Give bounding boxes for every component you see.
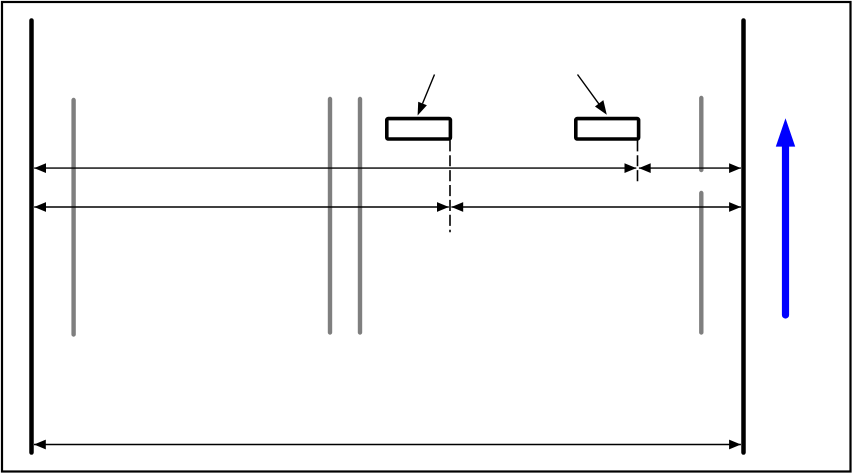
blue direction arrow	[776, 118, 795, 315]
dimension line D2 right span (box1 extension to wall)	[451, 202, 741, 212]
dimension line D1 left span (wall to box2 extension)	[34, 163, 636, 173]
gray plane 2	[328, 99, 332, 333]
dashed extension line from box 2	[637, 140, 639, 184]
left wall	[29, 21, 34, 453]
pointer arrow to box 1	[418, 75, 435, 116]
gray plane 1	[71, 100, 75, 335]
dashed extension line from box 1	[449, 140, 451, 232]
pointer arrow to box 2	[578, 75, 607, 115]
gray plane 3	[358, 99, 362, 333]
sensor box 2	[576, 119, 639, 139]
gray plane 4 upper segment	[699, 98, 703, 170]
sensor box 1	[387, 119, 451, 139]
dimension line D2 left span (wall to box1 extension)	[34, 202, 449, 212]
right wall	[741, 21, 746, 453]
dimension line D1 right span (box2 extension to wall)	[639, 163, 741, 173]
dimension line D3 full width (wall to wall)	[34, 440, 741, 450]
gray plane 4 lower segment	[699, 193, 703, 333]
